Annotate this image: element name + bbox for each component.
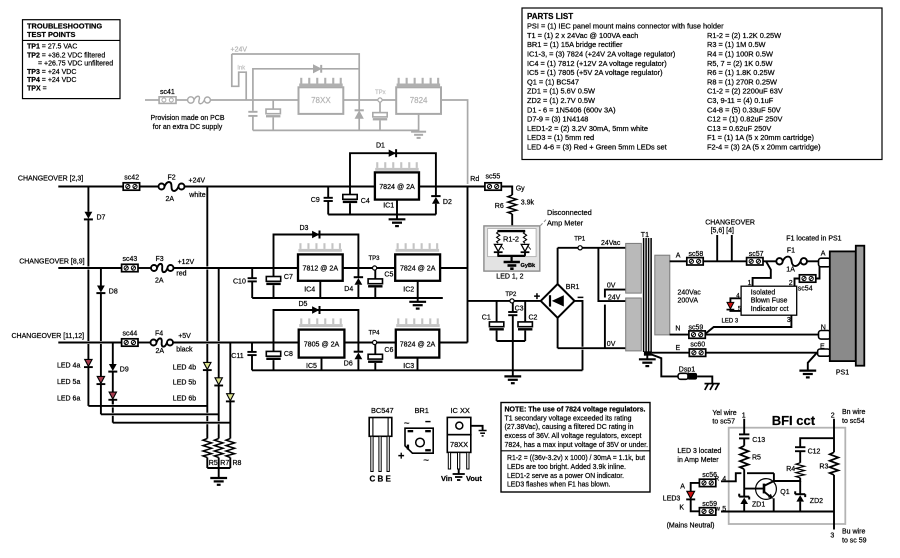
wire sc54 to A wire (816, 261, 820, 278)
svg-text:LEDs are too bright. Added 3.9: LEDs are too bright. Added 3.9k inline. (507, 462, 626, 471)
package IC XX (441, 406, 482, 483)
wire main ground rail (252, 369, 583, 371)
svg-text:C1-2 = (2) 2200uF 63V: C1-2 = (2) 2200uF 63V (707, 87, 783, 96)
regulator IC5 7805 (299, 330, 345, 358)
svg-text:T1: T1 (641, 232, 649, 239)
svg-text:IC XX: IC XX (451, 406, 470, 415)
svg-text:5: 5 (722, 506, 726, 513)
transformer winding secondary (655, 255, 670, 335)
ground (ghost) (411, 114, 426, 138)
svg-text:2: 2 (831, 412, 835, 419)
wire ghost link (232, 54, 246, 100)
svg-text:3.9k: 3.9k (521, 199, 535, 206)
wire ghost top rail (232, 54, 359, 100)
svg-text:sc58: sc58 (689, 251, 704, 258)
svg-text:BR1: BR1 (415, 406, 429, 415)
wire E to PS1 (706, 352, 818, 354)
svg-text:C12 = (1) 0.82uF 250V: C12 = (1) 0.82uF 250V (707, 115, 782, 124)
resistor R8 (226, 439, 235, 469)
svg-text:Amp Meter: Amp Meter (547, 219, 584, 228)
svg-text:Blown Fuse: Blown Fuse (751, 298, 788, 305)
svg-text:R4: R4 (786, 466, 795, 473)
wire pin5 loop (730, 310, 741, 311)
svg-text:R8 = (1) 270R 0.25W: R8 = (1) 270R 0.25W (707, 77, 777, 86)
wire chain b3 (229, 343, 231, 394)
wire ghost input rail (145, 99, 159, 101)
svg-text:240Vac: 240Vac (678, 289, 702, 296)
wire to Gy corner (501, 187, 512, 196)
svg-text:R1-2: R1-2 (503, 234, 519, 243)
component Dsp1 (652, 355, 713, 384)
wire pin4 jog (721, 473, 741, 481)
regulator IC1 7824 (375, 172, 419, 199)
svg-text:IC5 = (1) 7805 (+5V 2A voltage: IC5 = (1) 7805 (+5V 2A voltage regulator… (527, 68, 663, 77)
capacitor C8 (266, 343, 293, 371)
svg-text:red: red (176, 271, 186, 278)
connector sc55 (485, 183, 501, 190)
capacitor C2 (518, 301, 538, 341)
svg-text:sc55: sc55 (486, 174, 501, 181)
ground G5 core (639, 356, 656, 367)
svg-text:NOTE: The use of 7824 voltage: NOTE: The use of 7824 voltage regulators… (505, 405, 646, 414)
wire LED3 anode (691, 483, 700, 491)
wire ghost between regulators (343, 99, 396, 101)
svg-text:N: N (675, 326, 680, 333)
svg-text:LED 3: LED 3 (722, 319, 739, 325)
wire pin4 loop (730, 298, 741, 302)
svg-text:0V: 0V (607, 282, 616, 289)
svg-text:+12V: +12V (178, 259, 195, 266)
svg-text:to sc54: to sc54 (842, 418, 865, 425)
svg-text:Q1 = (1) BC547: Q1 = (1) BC547 (527, 77, 579, 86)
resistor R7 (214, 439, 223, 469)
svg-text:F3: F3 (156, 256, 164, 263)
svg-text:CHANGEOVER: CHANGEOVER (705, 219, 755, 226)
svg-text:24Vac: 24Vac (601, 240, 621, 247)
wire row1 right (419, 186, 485, 188)
LED3 (bfi) (663, 491, 695, 502)
diode (ghost bypass) (314, 65, 322, 73)
wire chain a1 (87, 187, 89, 212)
heatsink IC5 (299, 318, 343, 327)
svg-text:C4-8 = (5) 0.33uF 50V: C4-8 = (5) 0.33uF 50V (707, 105, 781, 114)
ghost provision circuit (extra DC supply) (145, 47, 468, 185)
transistor Q1 (744, 479, 790, 500)
diode D7 (84, 212, 106, 222)
wire E line (652, 352, 690, 354)
svg-text:TP2: TP2 (505, 292, 517, 298)
svg-text:C3, 9-11 = (4) 0.1uF: C3, 9-11 = (4) 0.1uF (707, 96, 774, 105)
svg-text:C12: C12 (808, 449, 821, 456)
svg-text:LED 5b: LED 5b (173, 380, 196, 387)
LED 4a (57, 359, 93, 369)
svg-text:~: ~ (423, 455, 429, 466)
capacitor C7 (266, 268, 293, 298)
heatsink IC3 (396, 318, 440, 327)
wire row2 to raw rail (440, 267, 467, 269)
wire chain b2 (218, 268, 220, 341)
wire bottom rail bfi (721, 511, 834, 513)
diode D3 bypass (274, 225, 359, 268)
diode D9 (108, 364, 129, 374)
svg-text:D7-9 = (3) 1N4148: D7-9 = (3) 1N4148 (527, 115, 588, 124)
svg-text:D8: D8 (109, 288, 118, 295)
wire rail B (101, 413, 219, 415)
fuse F3 2A (151, 264, 174, 272)
svg-text:D6: D6 (344, 361, 353, 368)
svg-text:C4: C4 (361, 198, 370, 205)
svg-text:(Mains Neutral): (Mains Neutral) (667, 522, 715, 529)
connector sc59 (bfi) (699, 508, 715, 515)
svg-text:TEST POINTS: TEST POINTS (27, 30, 76, 39)
svg-text:CHANGEOVER [8,9]: CHANGEOVER [8,9] (19, 259, 84, 266)
svg-text:ZD2: ZD2 (810, 498, 823, 505)
heatsink IC2 (396, 243, 440, 252)
capacitor C11 (231, 343, 256, 371)
svg-text:TPX =: TPX = (27, 85, 47, 92)
capacitor C9 (311, 187, 333, 215)
svg-text:excess of 36V. All voltage reg: excess of 36V. All voltage regulators, e… (505, 431, 642, 440)
connector sc44 (122, 339, 138, 346)
wire E earth branch (808, 353, 817, 370)
svg-text:C5: C5 (384, 271, 393, 278)
wire TP1 rail 24Vac (558, 247, 626, 249)
svg-text:LED3 flashes when F1 has blown: LED3 flashes when F1 has blown. (507, 480, 611, 489)
ground tab small (479, 431, 487, 436)
svg-text:TPx: TPx (375, 90, 386, 96)
svg-text:K: K (679, 504, 684, 511)
svg-text:LED 4b: LED 4b (173, 364, 196, 371)
wire IC5 stem (321, 358, 323, 371)
svg-text:black: black (176, 346, 193, 353)
wire ghost output to rail (441, 100, 468, 184)
wire F1 to A terminal (807, 260, 820, 262)
wire 0V stub upper (605, 290, 626, 298)
wire to F1 (763, 260, 776, 262)
svg-text:lnk: lnk (238, 66, 247, 72)
svg-text:~: ~ (404, 419, 410, 430)
svg-text:BC547: BC547 (371, 406, 394, 415)
svg-text:2A: 2A (155, 277, 164, 284)
svg-text:BR1 = (1) 15A bridge rectifier: BR1 = (1) 15A bridge rectifier (527, 40, 623, 49)
ground under IC XX center leg (453, 469, 465, 480)
svg-text:Gy: Gy (516, 185, 525, 192)
svg-text:F1 located in PS1: F1 located in PS1 (786, 236, 841, 243)
PS1 terminal N (819, 331, 831, 340)
connector sc58 (687, 258, 703, 265)
resistor R3 (819, 452, 838, 475)
svg-text:7805 @ 2A: 7805 @ 2A (304, 340, 340, 349)
svg-text:Indicator cct: Indicator cct (751, 306, 789, 313)
transformer winding primary-b (626, 298, 642, 351)
svg-text:R5: R5 (752, 454, 761, 461)
wire (140, 186, 159, 188)
capacitor ghost c-a (248, 100, 257, 130)
svg-text:PARTS LIST: PARTS LIST (527, 12, 573, 21)
svg-text:D1 - 6 = 1N5406 (600v 3A): D1 - 6 = 1N5406 (600v 3A) (527, 105, 616, 114)
capacitor C6 (368, 345, 393, 371)
connector sc56 (699, 479, 715, 486)
wire parallel tie 24V (598, 248, 625, 301)
svg-text:R1-2 = ((36v-3.2v) x 1000) / 3: R1-2 = ((36v-3.2v) x 1000) / 30mA = 1.1k… (507, 453, 645, 462)
svg-text:C10: C10 (233, 278, 246, 285)
wire caps sub-rail (497, 340, 526, 342)
wire ghost bypass diode rail (253, 69, 359, 100)
svg-text:sc60: sc60 (690, 341, 705, 348)
svg-text:2A: 2A (156, 348, 165, 355)
svg-text:C11: C11 (231, 353, 243, 360)
svg-text:D3: D3 (300, 225, 309, 232)
diode D5 bypass (274, 301, 359, 342)
svg-text:R1-2 = (2) 1.2K 0.25W: R1-2 = (2) 1.2K 0.25W (707, 31, 781, 40)
svg-text:C2: C2 (529, 314, 538, 321)
svg-text:F2-4 = (3) 2A (5 x 20mm cartri: F2-4 = (3) 2A (5 x 20mm cartridge) (707, 143, 821, 152)
svg-text:7824 @ 2A: 7824 @ 2A (379, 182, 415, 191)
LED 2 (521, 244, 531, 252)
wire row2 sub-rail (252, 297, 443, 299)
NOTE box (501, 403, 650, 493)
wire chain a3 (112, 343, 114, 365)
svg-text:sc43: sc43 (123, 256, 138, 263)
wire resistor bottom rail (207, 467, 230, 469)
svg-text:R3: R3 (819, 463, 828, 470)
ground G4 (210, 468, 227, 485)
svg-text:CHANGEOVER [11,12]: CHANGEOVER [11,12] (12, 333, 85, 340)
capacitor C10 (233, 268, 257, 298)
svg-text:F2: F2 (168, 174, 176, 181)
svg-text:78XX: 78XX (311, 96, 331, 105)
diode D4 (344, 268, 363, 298)
svg-text:R5, 7 = (2) 1K 0.5W: R5, 7 = (2) 1K 0.5W (707, 59, 773, 68)
svg-text:IC3: IC3 (403, 363, 414, 370)
wire N line (670, 334, 689, 336)
svg-text:Rd: Rd (470, 176, 479, 183)
svg-text:+: + (398, 451, 404, 463)
svg-text:C1: C1 (482, 314, 491, 321)
wire amp bottoms (497, 252, 499, 256)
connector sc57 (747, 258, 763, 265)
connector sc43 (122, 264, 138, 271)
svg-text:IC5: IC5 (306, 363, 317, 370)
wire row3 to raw rail (439, 342, 467, 344)
svg-text:D7: D7 (97, 215, 106, 222)
PS1 terminal E (818, 349, 831, 356)
package BC547 (369, 406, 393, 484)
svg-text:C8: C8 (284, 351, 293, 358)
wire IC3 stem (417, 358, 419, 371)
svg-text:F1 = (1) 1A (5 x 20mm cartridg: F1 = (1) 1A (5 x 20mm cartridge) (707, 133, 814, 142)
heatsink ghost 78XX (299, 78, 343, 87)
svg-text:3: 3 (830, 532, 834, 539)
svg-text:LED3: LED3 (663, 495, 681, 502)
troubleshooting test points box (23, 20, 121, 99)
svg-text:LED1-2 = (2) 3.2V 30mA, 5mm wh: LED1-2 = (2) 3.2V 30mA, 5mm white (527, 124, 648, 133)
svg-text:D2: D2 (443, 199, 452, 206)
svg-text:LED 4a: LED 4a (57, 363, 80, 370)
package BR1 (398, 406, 433, 467)
svg-text:sc41: sc41 (160, 89, 175, 96)
transformer core (644, 238, 652, 352)
svg-text:BR1: BR1 (566, 284, 580, 291)
svg-text:sc44: sc44 (123, 330, 138, 337)
svg-text:IC4 = (1) 7812 (+12V 2A voltag: IC4 = (1) 7812 (+12V 2A voltage regulato… (527, 59, 667, 68)
svg-text:R6: R6 (495, 203, 504, 210)
isolated blown fuse indicator box (741, 286, 797, 315)
wire amp top bar (497, 230, 525, 232)
wire 0V line (558, 347, 626, 349)
svg-text:R4 = (1) 100R 0.5W: R4 = (1) 100R 0.5W (707, 50, 773, 59)
svg-text:IC2: IC2 (403, 287, 414, 294)
svg-text:+24V: +24V (231, 47, 248, 54)
diode D6 (344, 343, 363, 371)
svg-text:Yel wire: Yel wire (712, 410, 736, 417)
wire row2 rail (58, 267, 121, 269)
wire A line mid (703, 260, 746, 262)
svg-text:TP4 = +24 VDC: TP4 = +24 VDC (27, 77, 76, 84)
svg-text:TP4: TP4 (369, 330, 381, 336)
resistor R5 (203, 439, 212, 469)
ground G6 (799, 371, 816, 378)
wire IC4 stem (319, 281, 321, 298)
capacitor C1 (482, 301, 504, 341)
ground G3 (504, 370, 521, 383)
svg-text:white: white (188, 192, 205, 199)
svg-text:D4: D4 (344, 286, 353, 293)
svg-text:N: N (821, 324, 826, 331)
resistor R1 (497, 232, 500, 244)
svg-text:C7: C7 (284, 274, 293, 281)
LED 6a (57, 392, 117, 403)
svg-text:C6: C6 (384, 347, 393, 354)
svg-text:D5: D5 (299, 301, 308, 308)
svg-text:Disconnected: Disconnected (547, 208, 592, 217)
svg-text:+24V: +24V (189, 177, 206, 184)
svg-text:R8: R8 (233, 460, 242, 467)
svg-text:LED 4-6 = (3) Red + Green 5mm: LED 4-6 = (3) Red + Green 5mm LEDs set (527, 143, 667, 152)
connector sc59 (689, 331, 705, 338)
ground G2 (409, 281, 426, 309)
resistor R6 3.9k (495, 195, 535, 227)
svg-text:Provision made on PCB: Provision made on PCB (151, 113, 225, 122)
capacitor C4 (343, 187, 370, 215)
ground chassis rake (705, 384, 720, 390)
wire row2 rail to IC4 (174, 267, 299, 269)
capacitor ghost c-b (266, 100, 280, 130)
svg-text:Bu wire: Bu wire (842, 528, 865, 535)
svg-text:3: 3 (787, 317, 791, 324)
svg-text:CHANGEOVER [2,3]: CHANGEOVER [2,3] (18, 176, 83, 183)
LED 4b (173, 362, 212, 371)
svg-text:Dsp1: Dsp1 (679, 366, 695, 373)
svg-text:LED 3 located: LED 3 located (677, 448, 721, 455)
wire row1 rail to IC1 (185, 186, 375, 188)
svg-text:for an extra DC supply: for an extra DC supply (153, 122, 223, 131)
svg-text:Isolated: Isolated (751, 289, 776, 296)
wire BR1 top to TP1 rail (557, 248, 559, 284)
svg-text:LED3 = (1) 5mm red: LED3 = (1) 5mm red (527, 133, 594, 142)
disconnected amp meter box (484, 226, 540, 271)
svg-text:0V: 0V (607, 341, 616, 348)
regulator 78XX (ghost) (299, 87, 344, 114)
svg-text:TP3: TP3 (369, 256, 381, 262)
connector sc60 (689, 349, 705, 356)
wire branch pin2 to sc54 (795, 279, 800, 287)
svg-text:LED 1, 2: LED 1, 2 (496, 273, 523, 280)
capacitor ghost c-c (373, 102, 387, 130)
capacitor C13 (739, 434, 765, 445)
svg-text:[5,6] [4]: [5,6] [4] (711, 227, 734, 234)
svg-text:ZD2 = (1) 2.7V 0.5W: ZD2 = (1) 2.7V 0.5W (527, 96, 595, 105)
wire row1 rail (58, 186, 123, 188)
wire rail C (113, 422, 231, 424)
svg-text:C B E: C B E (370, 475, 392, 484)
svg-text:LED 6b: LED 6b (173, 396, 196, 403)
svg-text:(27.38Vac), causing a filtered: (27.38Vac), causing a filtered DC rating… (505, 422, 634, 431)
svg-text:sc59: sc59 (702, 501, 717, 508)
svg-text:TP1: TP1 (574, 237, 586, 243)
svg-text:LED 6a: LED 6a (57, 396, 80, 403)
svg-text:200VA: 200VA (678, 298, 699, 305)
resistor R4 (786, 463, 804, 478)
svg-text:LED 5a: LED 5a (57, 379, 80, 386)
connector PS1 body (830, 251, 856, 361)
regulator IC2 7824 (395, 254, 440, 280)
capacitor C3 (508, 303, 523, 341)
ground GyBk (thick) (504, 256, 536, 269)
heatsink IC4 (298, 243, 342, 252)
svg-text:ZD1 = (1) 5.6V 0.5W: ZD1 = (1) 5.6V 0.5W (527, 87, 595, 96)
svg-text:R: R (715, 476, 720, 482)
svg-text:PS1: PS1 (836, 369, 849, 376)
BFI box (729, 428, 846, 524)
wire tab ground (471, 426, 483, 430)
svg-text:1A: 1A (786, 267, 795, 274)
wire pin2 (833, 419, 835, 453)
svg-text:GyBk: GyBk (521, 263, 537, 269)
svg-text:2A: 2A (166, 196, 175, 203)
svg-text:T1 secondary voltage exceeded: T1 secondary voltage exceeded its rating (505, 413, 632, 422)
svg-text:sc57: sc57 (749, 251, 764, 258)
svg-text:F4: F4 (155, 330, 163, 337)
svg-text:+5V: +5V (178, 333, 191, 340)
svg-text:ZD1: ZD1 (752, 501, 765, 508)
svg-text:IC4: IC4 (304, 287, 315, 294)
svg-text:C9: C9 (311, 197, 320, 204)
regulator 7824 (ghost) (396, 87, 441, 114)
regulator IC3 7824 (396, 330, 440, 358)
svg-text:= +26.75 VDC unfiltered: = +26.75 VDC unfiltered (38, 60, 113, 67)
svg-text:Bn wire: Bn wire (842, 409, 865, 416)
svg-text:Vout: Vout (466, 474, 482, 483)
connector sc42 (123, 183, 139, 190)
svg-text:to sc57: to sc57 (712, 419, 735, 426)
wire (138, 267, 151, 269)
svg-text:7824, has a max input voltage: 7824, has a max input voltage of 35V or … (505, 440, 649, 449)
svg-text:sc59: sc59 (689, 324, 704, 331)
transformer winding primary-a (626, 243, 642, 293)
svg-text:24V: 24V (608, 295, 621, 302)
svg-text:Q1: Q1 (780, 489, 789, 496)
svg-text:D9: D9 (120, 367, 129, 374)
svg-text:R7: R7 (220, 460, 229, 467)
svg-text:TP3 = +24 VDC: TP3 = +24 VDC (27, 69, 76, 76)
ground G1 (389, 200, 406, 227)
capacitor C5 (368, 270, 393, 298)
svg-text:1: 1 (742, 412, 746, 419)
svg-text:C3: C3 (515, 305, 524, 312)
wire (138, 342, 151, 344)
fuse F2 2A (159, 182, 185, 191)
